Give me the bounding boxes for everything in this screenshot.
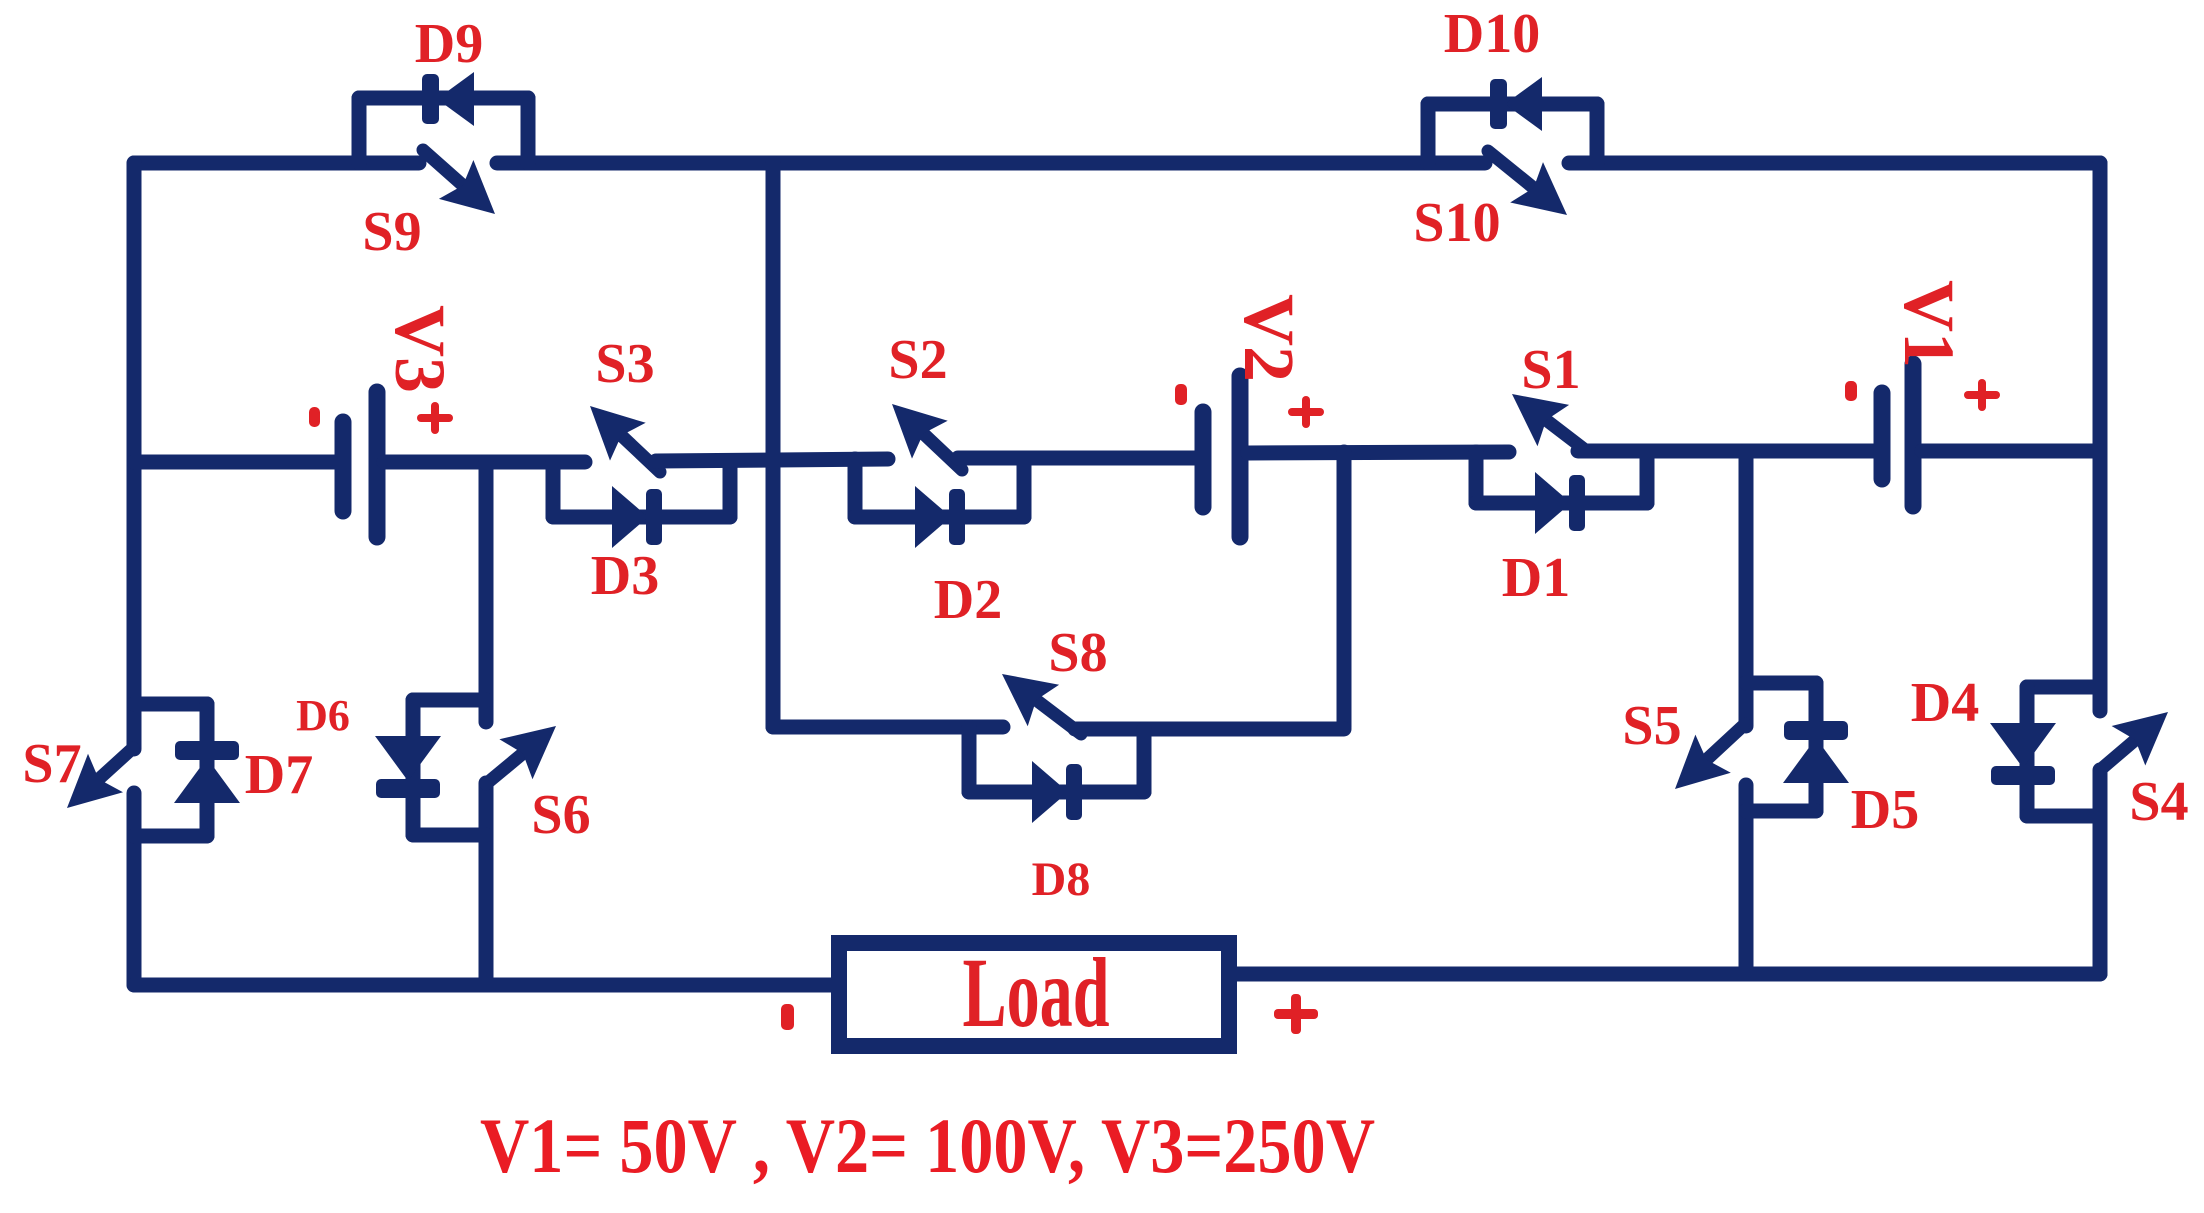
- svg-text:D8: D8: [1032, 853, 1091, 906]
- svg-text:S3: S3: [595, 333, 654, 395]
- battery V3: [335, 422, 352, 511]
- svg-text:D9: D9: [415, 13, 483, 75]
- wire bottom rail left: [134, 978, 838, 993]
- label V3 plus: [417, 414, 453, 422]
- svg-text:D5: D5: [1851, 779, 1919, 841]
- svg-text:S4: S4: [2129, 771, 2188, 833]
- svg-text:S5: S5: [1622, 695, 1681, 757]
- wire D8 loop bottom: [969, 785, 1144, 800]
- svg-text:D3: D3: [591, 545, 659, 607]
- label V2 plus: [1288, 408, 1324, 416]
- wire D9 loop right vertical: [521, 98, 536, 163]
- wire D7 loop top stub: [134, 697, 207, 712]
- diode D9: [437, 72, 474, 126]
- svg-text:S7: S7: [22, 733, 81, 795]
- battery V1: [1874, 393, 1891, 479]
- label V2 minus: [1175, 384, 1187, 405]
- wire D2 loop bottom: [855, 510, 1024, 525]
- wire D5 loop top stub: [1746, 676, 1816, 691]
- switch S8: [1036, 700, 1081, 734]
- svg-text:D4: D4: [1911, 672, 1979, 734]
- svg-text:D6: D6: [296, 691, 350, 740]
- wire D8 loop left vertical: [962, 727, 977, 792]
- wire D3 loop left vertical: [546, 462, 561, 517]
- svg-text:S1: S1: [1521, 339, 1580, 401]
- label V1 plus: [1964, 391, 2000, 399]
- svg-text:D7: D7: [245, 744, 313, 806]
- wire bottom rail right: [1230, 967, 2100, 982]
- wire D6 loop bottom stub: [413, 828, 486, 843]
- wire D1 loop right vertical: [1640, 452, 1655, 503]
- wire D6 loop top stub: [413, 693, 486, 708]
- wire S8 row right segment: [1075, 722, 1344, 737]
- load box: [839, 943, 1229, 1046]
- wire D9 loop top: [359, 91, 528, 106]
- node junction bus to S8 branch: [1337, 452, 1352, 727]
- wire D9 loop left vertical: [352, 98, 367, 163]
- wire D7 loop right vertical: [200, 704, 215, 836]
- wire bus segment node-left to V3: [134, 455, 336, 470]
- wire bus segment V1 to right rail: [1922, 444, 2100, 459]
- switch S9: [423, 150, 463, 185]
- wire bus segment S1 to V1: [1578, 444, 1875, 459]
- svg-text:D10: D10: [1444, 3, 1540, 65]
- label load minus: [781, 1004, 794, 1030]
- wire D4 loop bottom stub: [2027, 809, 2100, 824]
- wire D3 loop right vertical: [723, 462, 738, 517]
- svg-text:S8: S8: [1048, 622, 1107, 684]
- label V1 minus: [1845, 381, 1857, 401]
- svg-text:S2: S2: [888, 329, 947, 391]
- wire bus segment V2 to S1: [1248, 452, 1509, 453]
- wire left rail upper: [127, 163, 142, 749]
- wire D10 loop right vertical: [1590, 104, 1605, 163]
- diode D3: [612, 486, 648, 548]
- diode D4: [1990, 723, 2056, 768]
- wire bus segment S2 to V2: [958, 451, 1196, 466]
- svg-text:V1= 50V , V2= 100V, V3=250V: V1= 50V , V2= 100V, V3=250V: [480, 1102, 1375, 1189]
- diode D7: [174, 758, 240, 803]
- wire center vertical node: [766, 163, 781, 727]
- wire left rail lower: [127, 793, 142, 985]
- wire D2 loop left vertical: [848, 459, 863, 517]
- switch S5: [1707, 724, 1746, 760]
- diode D1: [1535, 472, 1571, 534]
- label load plus: [1274, 1009, 1318, 1019]
- wire D3 loop bottom: [553, 510, 730, 525]
- wire top rail left segment: [134, 156, 419, 171]
- wire D6 loop left vertical: [406, 700, 421, 835]
- wire S5 branch lower vertical: [1739, 785, 1754, 974]
- wire D4 loop left vertical: [2020, 687, 2035, 816]
- switch S3: [621, 436, 660, 473]
- wire D1 loop left vertical: [1469, 452, 1484, 503]
- svg-text:Load: Load: [963, 937, 1110, 1048]
- wire D1 loop bottom: [1476, 496, 1647, 511]
- svg-text:D2: D2: [934, 569, 1002, 631]
- wire D4 loop top stub: [2027, 680, 2100, 695]
- switch S1: [1546, 420, 1584, 449]
- wire right rail upper: [2093, 163, 2108, 711]
- wire D10 loop top: [1428, 97, 1597, 112]
- wire top rail right segment: [1569, 156, 2100, 171]
- battery V2: [1195, 412, 1212, 507]
- wire D2 loop right vertical: [1017, 458, 1032, 517]
- diode D10: [1505, 77, 1542, 131]
- diode D2: [915, 486, 951, 548]
- wire top rail middle segment: [497, 156, 1485, 171]
- switch S6: [486, 753, 523, 784]
- svg-text:D1: D1: [1502, 547, 1570, 609]
- switch S4: [2100, 740, 2135, 770]
- svg-text:S9: S9: [362, 201, 421, 263]
- diode D6: [375, 736, 441, 781]
- wire right rail lower: [2093, 770, 2108, 974]
- wire D7 loop bottom stub: [134, 829, 207, 844]
- svg-text:V3: V3: [380, 305, 460, 393]
- svg-text:S6: S6: [531, 784, 590, 846]
- switch S7: [99, 748, 133, 779]
- switch S10: [1488, 151, 1534, 188]
- wire D10 loop left vertical: [1421, 104, 1436, 163]
- svg-text:S10: S10: [1413, 192, 1500, 254]
- label V3 minus: [309, 407, 320, 427]
- wire bus segment S3 to S2: [656, 459, 888, 461]
- wire D5 loop bottom stub: [1746, 804, 1816, 819]
- wire branch vertical S6 lower: [479, 783, 494, 985]
- diode D5: [1783, 738, 1849, 783]
- svg-text:V2: V2: [1229, 294, 1309, 382]
- svg-text:V1: V1: [1889, 280, 1969, 368]
- switch S2: [923, 434, 962, 471]
- diode D8: [1032, 761, 1068, 823]
- wire D5 loop right vertical: [1809, 683, 1824, 811]
- wire bus segment V3 to S3: [384, 455, 585, 470]
- wire S8 row left segment: [773, 720, 1003, 735]
- node junction bus to S5 branch: [1739, 451, 1754, 726]
- wire branch vertical bus to S6 upper: [479, 462, 494, 722]
- wire D8 loop right vertical: [1137, 729, 1152, 792]
